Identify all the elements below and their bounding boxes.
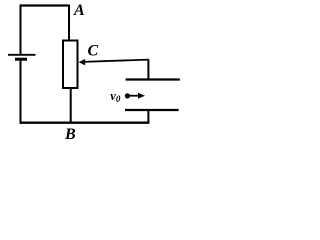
velocity arrow head xyxy=(138,93,145,99)
svg-text:A: A xyxy=(73,2,85,19)
svg-text:B: B xyxy=(64,126,76,143)
battery (cell) long plate xyxy=(8,54,36,56)
wire left lower (battery down to bottom wire) xyxy=(20,61,22,124)
svg-text:C: C xyxy=(88,43,99,60)
wire bottom plate stub (down to bottom rail) xyxy=(147,110,149,124)
velocity arrow shaft xyxy=(129,95,141,97)
wire rheostat top stub xyxy=(68,5,70,41)
battery (cell) short thick plate xyxy=(15,58,27,61)
wire bottom (node B rail) xyxy=(20,121,150,123)
wire top (battery to node A) xyxy=(20,4,71,6)
wire wiper vertical (down to top plate) xyxy=(147,60,149,81)
wiper arrow C (shaft) xyxy=(83,60,149,62)
resistor R (rheostat body) xyxy=(63,41,78,89)
capacitor top plate xyxy=(126,78,180,80)
capacitor bottom plate xyxy=(125,109,179,111)
wiper arrow C (head, pointing left at resistor) xyxy=(79,59,86,65)
wire rheostat bottom stub xyxy=(70,88,72,124)
wire left upper (top wire down to battery) xyxy=(20,5,22,55)
charged particle (dot) xyxy=(125,93,130,98)
